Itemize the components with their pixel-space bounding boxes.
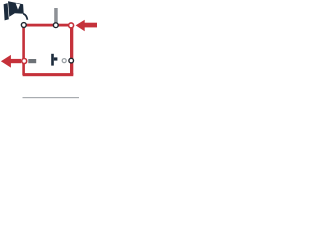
- background: [0, 0, 97, 100]
- wire top (node A to node C): [22, 24, 71, 27]
- node E (left junction, red ring): [22, 59, 27, 64]
- grey baseline at bottom: [23, 97, 80, 98]
- wire left (node A down through node E to bottom corner): [22, 24, 25, 75]
- node A (top-left junction): [21, 23, 26, 28]
- current arrow top (points left into node C, shaft exits right edge): [76, 20, 97, 31]
- grey stub right of node E: [28, 59, 36, 63]
- current arrow left (points left away from node E): [1, 55, 21, 68]
- component glyph (navy turnstile near bottom centre): [51, 54, 57, 66]
- node B (top-middle junction): [53, 23, 58, 28]
- grey stub wire above node B: [54, 8, 58, 24]
- logo glyph (top-left navy mark): [4, 1, 28, 20]
- wire bottom: [23, 73, 74, 76]
- small grey terminal ring: [62, 59, 66, 63]
- wire right (node C down to bottom corner): [70, 25, 73, 75]
- node C (top-right junction, red ring): [69, 23, 74, 28]
- node D (right wire junction): [69, 58, 74, 63]
